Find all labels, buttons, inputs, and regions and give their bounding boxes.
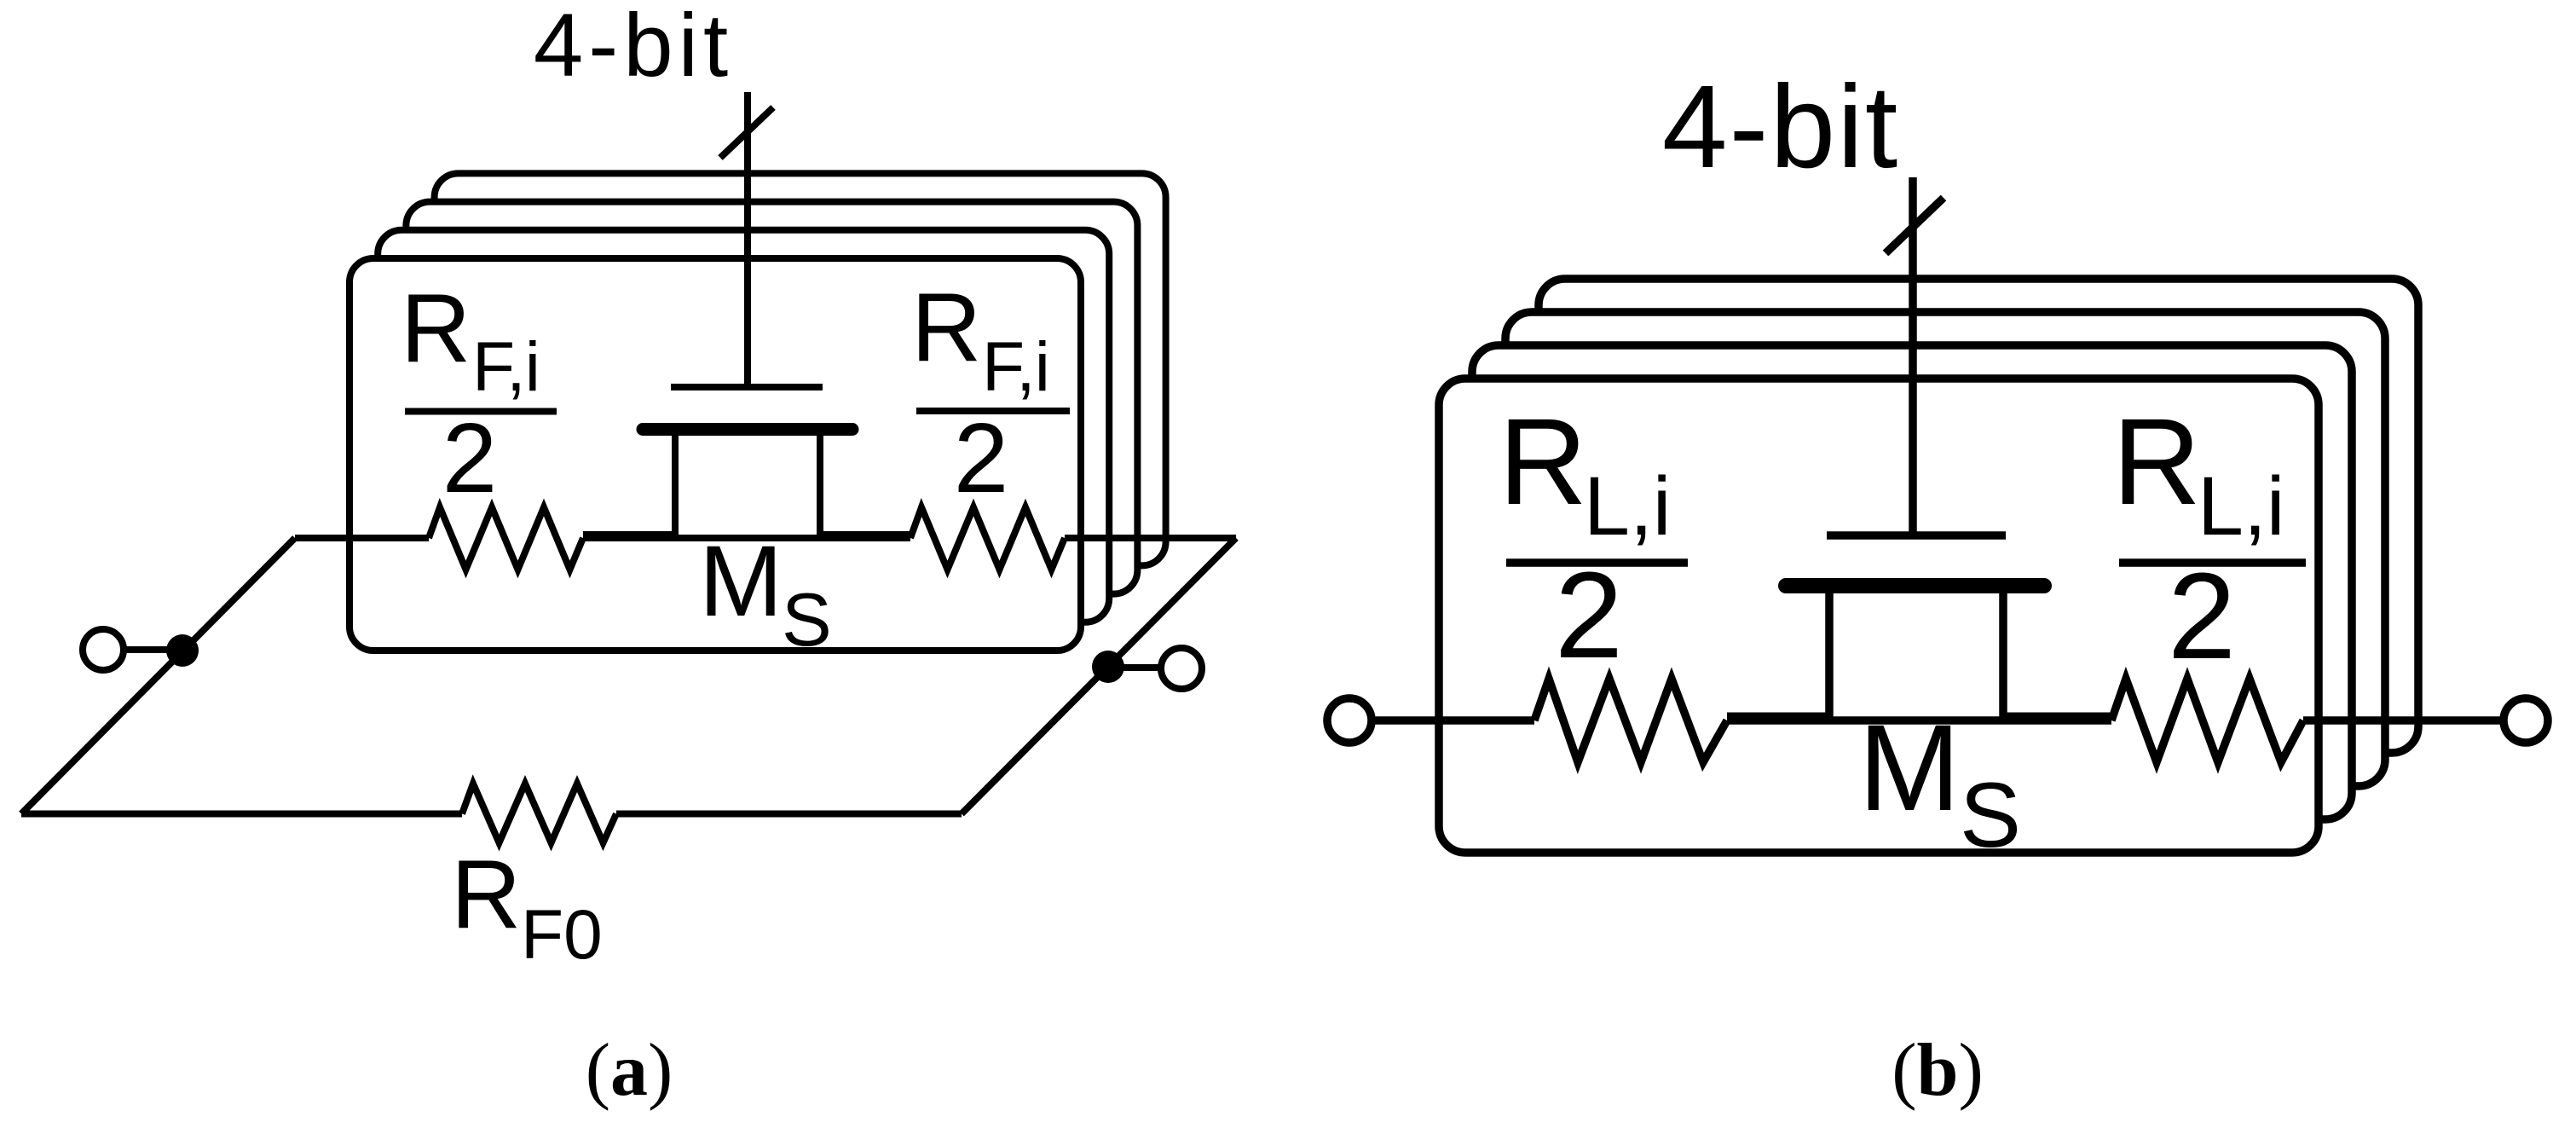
value label R_L,i/2 left (b)	[1499, 393, 1688, 684]
wire: input stub (a)	[124, 646, 182, 653]
svg-text:R: R	[451, 841, 521, 949]
transistor M_S channel bar (a)	[643, 423, 852, 436]
svg-text:M: M	[699, 525, 783, 638]
svg-text:R: R	[2112, 393, 2201, 530]
wire: main wire right section to plane corner (a)	[1065, 535, 1236, 541]
label M_S (b)	[1858, 699, 2021, 866]
transistor M_S gate bar (a)	[671, 384, 823, 390]
value label R_L,i/2 right (b)	[2112, 393, 2306, 685]
switch-cell bank rect 2 (a)	[378, 230, 1109, 622]
resistor R_L,i/2 right zigzag (b)	[2111, 679, 2303, 762]
wire: parallelogram right edge (a)	[962, 538, 1236, 814]
switch-cell front rect (b)	[1439, 379, 2319, 853]
output terminal circle (b)	[2504, 698, 2548, 743]
svg-text:M: M	[1858, 699, 1961, 836]
wire: output stub (a)	[1108, 664, 1161, 671]
wire: right wire to output (b)	[2303, 716, 2504, 725]
svg-text:F0: F0	[521, 896, 603, 974]
svg-text:F,i: F,i	[982, 328, 1049, 406]
value label R_F,i/2 right (a)	[911, 274, 1070, 513]
bus slash mark 4-bit (b)	[1886, 198, 1944, 253]
value label R_F0 (a)	[451, 841, 603, 974]
transistor M_S gate wire (b)	[1909, 177, 1917, 535]
switch-cell bank rect 4 (backmost, b)	[1539, 279, 2418, 753]
wire: bottom edge of plane, right of R_F0 (a)	[616, 811, 962, 818]
transistor M_S source lead (a)	[583, 430, 675, 535]
transistor M_S source lead (b)	[1727, 586, 1829, 716]
wire: main wire between left resistor and right resistor (a)	[583, 535, 910, 541]
svg-text:2: 2	[2168, 547, 2236, 685]
svg-text:2: 2	[954, 402, 1009, 513]
svg-text:L,i: L,i	[1584, 460, 1671, 552]
wire: left wire to resistor (b)	[1372, 716, 1534, 725]
input terminal circle (a)	[83, 629, 124, 670]
svg-text:4-bit: 4-bit	[1662, 61, 1899, 193]
svg-text:S: S	[782, 577, 832, 662]
switch-cell front rect (a)	[349, 258, 1081, 651]
value label R_F,i/2 left (a)	[401, 275, 557, 513]
resistor R_F,i/2 left zigzag (a)	[429, 507, 583, 570]
resistor R_F,i/2 right zigzag (a)	[910, 507, 1065, 570]
svg-text:4-bit: 4-bit	[534, 0, 733, 95]
wire: main wire between resistors (b)	[1727, 716, 2111, 725]
junction dot output node (a)	[1092, 651, 1124, 683]
svg-text:F,i: F,i	[472, 328, 540, 406]
svg-text:R: R	[1499, 393, 1587, 530]
wire: top edge / main wire of plane (a), left section	[295, 535, 429, 541]
svg-text:R: R	[911, 274, 981, 382]
svg-text:S: S	[1960, 763, 2021, 866]
output terminal circle (a)	[1161, 648, 1202, 689]
svg-text:2: 2	[1555, 547, 1623, 684]
svg-text:(b): (b)	[1892, 1029, 1984, 1112]
resistor R_F0 zigzag (a)	[462, 784, 616, 843]
svg-text:(a): (a)	[586, 1029, 673, 1112]
transistor M_S channel bar (b)	[1786, 578, 2044, 593]
wire: bottom edge of plane, left of R_F0 (a)	[21, 811, 462, 818]
transistor M_S drain lead (b)	[2003, 586, 2111, 716]
switch-cell bank rect 3 (a)	[406, 202, 1137, 594]
transistor M_S drain lead (a)	[820, 430, 910, 535]
switch-cell bank rect 3 (b)	[1505, 312, 2385, 786]
svg-text:2: 2	[442, 402, 498, 513]
label M_S (a)	[699, 525, 832, 662]
transistor M_S gate wire (a)	[744, 92, 751, 387]
wire: parallelogram left edge (a)	[21, 538, 295, 814]
svg-text:R: R	[401, 275, 471, 383]
resistor R_L,i/2 left zigzag (b)	[1534, 679, 1727, 762]
input terminal circle (b)	[1327, 698, 1372, 743]
switch-cell bank rect 2 (b)	[1472, 345, 2352, 819]
bus slash mark 4-bit (a)	[720, 107, 773, 158]
svg-text:L,i: L,i	[2198, 460, 2284, 552]
junction dot input node (a)	[166, 634, 199, 667]
switch-cell bank rect 4 (backmost, a)	[435, 173, 1166, 565]
transistor M_S gate bar (b)	[1827, 531, 2006, 540]
